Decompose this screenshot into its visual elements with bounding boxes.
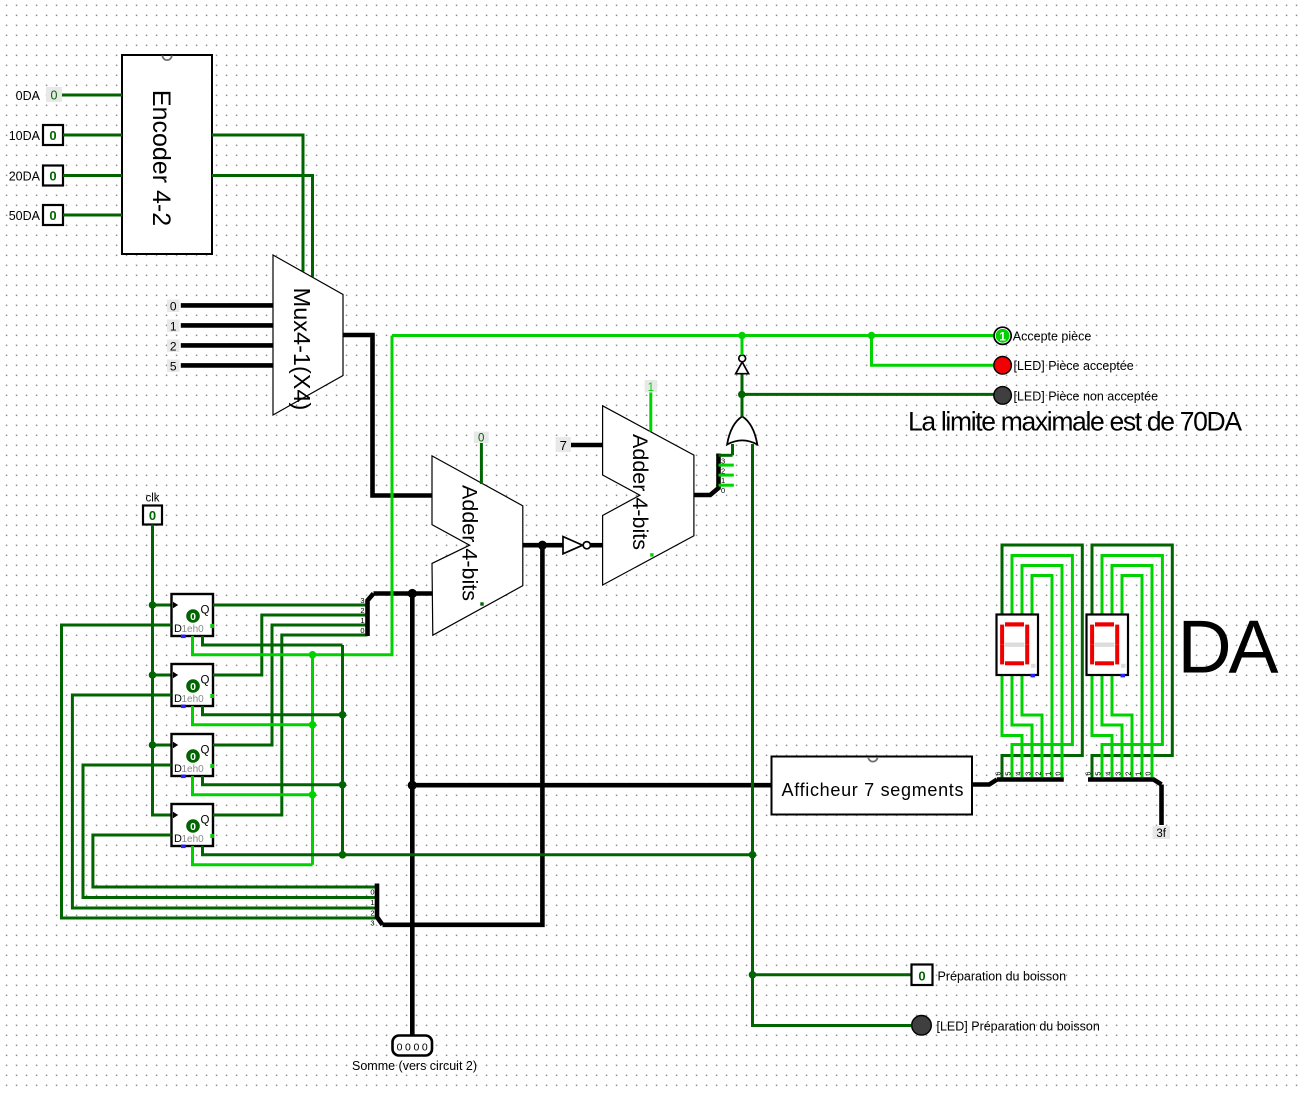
D1 segment A — [1005, 622, 1024, 626]
wire carry-in 1 to adder A2 — [649, 393, 652, 432]
svg-text:DA: DA — [1178, 605, 1279, 689]
svg-text:0: 0 — [49, 208, 56, 223]
D1 segment B — [1025, 625, 1029, 645]
svg-text:0: 0 — [190, 751, 196, 763]
wire FF3 aux output — [203, 776, 343, 785]
svg-text:1: 1 — [648, 382, 654, 394]
svg-text:0000: 0000 — [397, 1042, 431, 1054]
svg-text:0: 0 — [190, 681, 196, 693]
junction aux / or input vertical — [749, 851, 757, 859]
svg-text:1: 1 — [999, 329, 1006, 343]
svg-text:2: 2 — [360, 606, 364, 615]
encoder U1 notch — [163, 56, 172, 61]
svg-text:50DA: 50DA — [9, 209, 41, 223]
wire D2 seg B2-bit3 — [1102, 675, 1122, 778]
D2 decimal point (off) — [1121, 664, 1126, 668]
wire clk stub FF3 — [153, 744, 172, 747]
wire D1 seg loop T3-bit0 — [1022, 566, 1062, 778]
splitter SPA spine (display D1) — [997, 777, 1064, 782]
LED "Preparation du boisson" (off) — [912, 1016, 932, 1036]
svg-text:Accepte pièce: Accepte pièce — [1013, 330, 1092, 344]
constant 7 (adder A2 input A) — [556, 437, 571, 452]
svg-text:Encoder 4-2: Encoder 4-2 — [147, 90, 175, 226]
wire FF4 enable — [193, 846, 313, 865]
D flip-flop FF4 — [172, 804, 214, 848]
splitter SP3 bit labels — [721, 457, 725, 496]
svg-text:0: 0 — [360, 626, 364, 635]
wire aux net to OR right input and bottom outputs — [343, 853, 753, 856]
splitter SP1 spine — [368, 594, 374, 637]
wire D2 seg loop T4-bit1 — [1122, 576, 1142, 778]
splitter SPB bit labels — [1086, 772, 1153, 776]
wire aux vertical tie — [341, 645, 344, 855]
junction aux FF2 — [339, 711, 347, 719]
D flip-flop FF2 — [172, 664, 214, 708]
junction accept/inverter — [738, 332, 746, 340]
constant 0DA value 0 — [46, 87, 62, 102]
wire FF3 D feedback — [83, 765, 376, 898]
wire enable vertical tie — [311, 655, 314, 865]
D flip-flop FF3 — [172, 734, 214, 778]
wire bus vertical to Somme output — [410, 594, 415, 1036]
splitter SP2 spine — [377, 884, 383, 925]
wire to preparation pin — [753, 973, 912, 976]
svg-text:1eh0: 1eh0 — [182, 624, 205, 635]
wire inverter G1 out to adder A2 input B — [591, 543, 603, 548]
afficheur notch — [868, 757, 877, 762]
junction enable FF2 — [309, 721, 317, 729]
wire branch to red LED — [872, 336, 995, 366]
LED "Piece non acceptee" (off, gray) — [994, 387, 1012, 405]
wire inverter G3 out up to accept line — [741, 336, 744, 356]
wire SPB to constant 3f — [1159, 785, 1164, 826]
D2 segment A — [1095, 622, 1114, 626]
svg-text:3: 3 — [370, 919, 374, 928]
svg-text:La limite maximale est de 70DA: La limite maximale est de 70DA — [908, 407, 1242, 437]
D flip-flop FF1 — [172, 594, 214, 638]
wire bus to afficheur — [412, 783, 771, 788]
svg-text:Préparation du boisson: Préparation du boisson — [938, 970, 1067, 984]
wire D2 seg B1-bit4 — [1092, 675, 1112, 778]
svg-text:Somme (vers circuit 2): Somme (vers circuit 2) — [352, 1059, 477, 1073]
svg-text:20DA: 20DA — [9, 170, 41, 184]
D1 common pin (blue) — [1031, 674, 1036, 678]
svg-text:2: 2 — [170, 339, 177, 353]
wire mux data 0 — [181, 303, 273, 308]
junction clk FF2 — [149, 671, 157, 679]
wire encoder out bit1 to mux select — [212, 135, 303, 272]
splitter SP3 spine — [716, 454, 721, 490]
svg-text:Adder 4-bits: Adder 4-bits — [458, 485, 482, 601]
svg-text:2: 2 — [721, 466, 725, 475]
wire FF3 enable — [193, 776, 313, 795]
junction clk FF1 — [149, 601, 157, 609]
svg-text:1: 1 — [370, 898, 374, 907]
junction aux FF4 — [339, 851, 347, 859]
D2 segment B — [1115, 625, 1119, 645]
svg-text:0: 0 — [49, 128, 56, 143]
splitter SP1 bit labels — [360, 596, 364, 635]
wire or-gate G2 output up — [741, 374, 744, 417]
wire FF1 Q to splitter SP1 bit3 — [213, 604, 368, 607]
svg-text:[LED] Pièce acceptée: [LED] Pièce acceptée — [1014, 359, 1134, 373]
adder A2 "Adder 4-bits" — [603, 406, 694, 585]
wire 0DA to encoder — [62, 94, 122, 97]
splitter SP3 bit0 stub — [719, 484, 734, 487]
output pin Somme (4-bit) — [393, 1036, 433, 1056]
wire mux output bus to adder A1 input A — [343, 335, 432, 496]
svg-text:0: 0 — [478, 433, 484, 445]
svg-text:Q: Q — [201, 815, 210, 827]
wire FF1 enable (bright) — [193, 336, 393, 655]
wire D1 seg B2-bit3 — [1012, 675, 1032, 778]
inverter G3 (vertical, or-out to accept net) — [736, 362, 749, 374]
D1 segment C — [1025, 645, 1029, 665]
svg-text:0DA: 0DA — [16, 89, 41, 103]
wire FF2 aux output — [203, 706, 343, 715]
svg-text:0: 0 — [149, 508, 156, 523]
wire mux data 1 — [181, 323, 273, 328]
svg-text:1eh0: 1eh0 — [182, 764, 205, 775]
D2 segment F — [1090, 625, 1094, 645]
7-segment display D1 — [997, 615, 1039, 676]
svg-text:0: 0 — [170, 299, 177, 313]
svg-text:Mux4-1(X4): Mux4-1(X4) — [289, 288, 315, 411]
wire constant 7 to adder A2 — [571, 443, 603, 448]
wire FF4 D feedback — [93, 835, 376, 887]
wire clk vertical distribution — [153, 525, 172, 816]
svg-text:10DA: 10DA — [9, 129, 41, 143]
svg-text:0: 0 — [918, 969, 925, 984]
svg-text:Q: Q — [201, 675, 210, 687]
wire D1 seg loop T4-bit1 — [1032, 576, 1052, 778]
D1 decimal point (off) — [1031, 664, 1036, 668]
wire 10DA to encoder — [63, 134, 122, 137]
svg-text:7: 7 — [560, 438, 567, 453]
wire clk stub FF2 — [153, 674, 172, 677]
svg-text:[LED] Pièce non acceptée: [LED] Pièce non acceptée — [1014, 390, 1159, 404]
svg-text:clk: clk — [145, 493, 159, 505]
svg-text:Afficheur 7 segments: Afficheur 7 segments — [782, 780, 964, 800]
svg-text:0: 0 — [51, 89, 58, 103]
junction enable FF3 — [309, 791, 317, 799]
wire mux data 5 — [181, 363, 273, 368]
junction preparation pin — [749, 971, 757, 979]
wire 50DA to encoder — [63, 214, 122, 217]
wire D2 seg loop T3-bit0 — [1112, 566, 1152, 778]
D2 common pin (blue) — [1121, 674, 1126, 678]
junction enable FF1 — [309, 651, 317, 659]
junction bus / afficheur branch — [408, 781, 417, 790]
adder A1 "Adder 4-bits" — [432, 456, 523, 635]
D2 segment C — [1115, 645, 1119, 665]
wire FF2 enable — [193, 706, 313, 725]
wire FF2 Q to splitter SP1 bit2 — [213, 615, 368, 675]
wire OR right input vertical down to outputs — [753, 444, 912, 1026]
svg-text:0: 0 — [190, 611, 196, 623]
constant 5 (mux input) — [167, 360, 180, 373]
constant 1 (adder A2 carry-in) — [645, 380, 658, 393]
input pin 10DA — [43, 125, 63, 145]
svg-text:3f: 3f — [1156, 828, 1166, 840]
wire carry-in 0 to adder A1 — [480, 443, 483, 484]
junction bus SP1 / Somme vertical — [408, 589, 417, 598]
splitter SP2 bit labels — [370, 888, 374, 928]
wire D1 seg B1-bit4 — [1002, 675, 1022, 778]
D2 segment E — [1090, 645, 1094, 665]
junction aux FF3 — [339, 781, 347, 789]
wire FF4 Q to splitter SP1 bit0 — [213, 635, 368, 815]
output pin "Preparation du boisson" — [912, 965, 933, 986]
junction accept/red LED branch — [868, 332, 876, 340]
wire FF1 D feedback — [62, 625, 376, 918]
D1 segment G (off) — [1005, 643, 1025, 647]
constant 0 (mux input) — [167, 300, 180, 313]
svg-text:5: 5 — [170, 359, 177, 373]
input pin 50DA — [43, 205, 63, 225]
inverter G1 (between adders) — [563, 537, 583, 554]
D1 segment D — [1005, 661, 1024, 665]
splitter SP3 bit2 stub — [719, 464, 734, 467]
wire mux data 2 — [181, 343, 273, 348]
input pin clk — [143, 506, 162, 525]
wire 20DA to encoder — [63, 174, 122, 177]
adder A2 carry-out pin (unconnected) — [650, 553, 653, 556]
wire afficheur output to splitter SPA — [972, 780, 997, 785]
splitter SPA bit labels — [996, 772, 1063, 776]
constant 0 (adder A1 carry-in) — [474, 432, 489, 444]
subcircuit U3 "Afficheur 7 segments" — [772, 757, 973, 815]
wire bus splitter SP1 to adder A1 input B — [374, 591, 433, 596]
mux U2 "Mux4-1(X4)" — [273, 255, 343, 415]
svg-text:Q: Q — [201, 605, 210, 617]
svg-text:0: 0 — [721, 486, 725, 495]
or-gate G2 — [727, 416, 757, 444]
svg-text:2: 2 — [370, 909, 374, 918]
output pin "Accepte piece" — [994, 327, 1011, 344]
splitter SP3 bit1 stub — [719, 474, 734, 477]
adder A1 carry-out pin (unconnected) — [480, 602, 483, 605]
svg-text:1: 1 — [170, 319, 177, 333]
constant 2 (mux input) — [167, 340, 180, 353]
D1 segment E — [1000, 645, 1004, 665]
D2 segment G (off) — [1095, 643, 1115, 647]
junction or output / LED branch — [738, 391, 746, 399]
wire adder A2 sum out to splitter SP3 — [694, 488, 719, 495]
svg-text:0: 0 — [49, 169, 56, 184]
junction clk FF3 — [149, 741, 157, 749]
svg-text:3: 3 — [721, 457, 725, 466]
svg-text:1eh0: 1eh0 — [182, 694, 205, 705]
wire bus sum feedback (adder A1 out junction down to SP2) — [383, 545, 543, 925]
svg-text:0: 0 — [190, 821, 196, 833]
svg-text:Adder 4-bits: Adder 4-bits — [628, 434, 652, 550]
wire D1 seg loop bit6 (dark) — [1002, 545, 1082, 778]
wire accept line (bright) — [392, 334, 994, 337]
wire FF2 D feedback — [72, 695, 375, 908]
input pin 20DA — [43, 166, 63, 186]
wire or output to gray LED — [742, 393, 994, 396]
wire D2 seg loop bit5 — [1102, 556, 1162, 778]
7-segment display D2 — [1087, 615, 1129, 676]
wire adder A1 sum out — [523, 543, 563, 548]
splitter SP3 bit3 stub — [719, 454, 733, 457]
constant 3f — [1153, 826, 1171, 839]
wire splitter SP3 bit3 to OR gate left input — [731, 444, 734, 455]
wire D1 seg loop bit5 — [1012, 556, 1072, 778]
encoder U1 "Encoder 4-2" — [122, 55, 212, 254]
D2 segment D — [1095, 661, 1114, 665]
junction adder A1 out / feedback bus — [538, 541, 547, 550]
svg-text:0: 0 — [370, 888, 374, 897]
D1 segment F — [1000, 625, 1004, 645]
wire clk stub FF1 — [153, 604, 172, 607]
svg-text:Q: Q — [201, 745, 210, 757]
LED "Piece acceptee" (lit red) — [994, 357, 1012, 375]
wire FF4 aux output — [203, 846, 343, 855]
svg-text:1: 1 — [721, 476, 725, 485]
svg-text:1eh0: 1eh0 — [182, 834, 205, 845]
svg-text:3: 3 — [360, 596, 364, 605]
svg-text:[LED] Préparation du boisson: [LED] Préparation du boisson — [937, 1020, 1100, 1034]
wire D1 seg B3-bit2 — [1022, 675, 1042, 778]
wire FF1 aux output (dark) — [203, 636, 343, 645]
wire encoder out bit0 to mux select — [212, 176, 313, 277]
splitter SPB spine (display D2) — [1088, 780, 1162, 785]
wire D2 seg loop bit6 (dark) — [1092, 545, 1172, 778]
constant 1 (mux input) — [167, 320, 180, 333]
svg-text:1: 1 — [360, 616, 364, 625]
wire D2 seg B3-bit2 — [1112, 675, 1132, 778]
wire FF3 Q to splitter SP1 bit1 — [213, 625, 368, 745]
